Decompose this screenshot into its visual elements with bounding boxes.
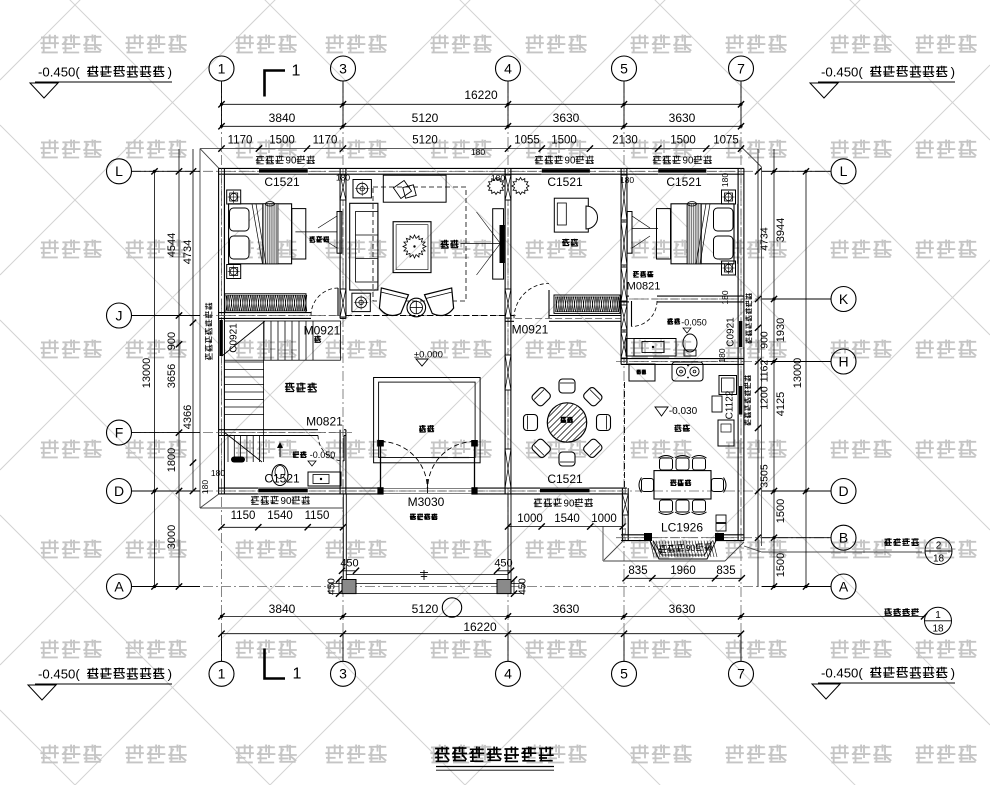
guest bath toilet	[272, 465, 288, 486]
window C1521 bottom dining	[540, 488, 590, 494]
svg-text:1000: 1000	[591, 513, 617, 525]
svg-text:835: 835	[628, 565, 647, 577]
svg-text:M3030: M3030	[408, 495, 445, 509]
breakfast-room left wall	[621, 488, 623, 540]
svg-text:13000: 13000	[792, 358, 804, 389]
window C0921 left wall	[219, 320, 225, 356]
svg-text:3840: 3840	[269, 602, 296, 616]
svg-text:450: 450	[327, 578, 338, 595]
svg-text:180: 180	[491, 173, 505, 183]
stairwell treads upper flight	[224, 321, 340, 360]
svg-text:1960: 1960	[670, 565, 696, 577]
window C1521 bottom-left (bath)	[258, 488, 307, 494]
porch side rails	[342, 494, 344, 585]
window C1521 study top	[542, 168, 590, 174]
svg-text:C1521: C1521	[264, 175, 300, 189]
axis-5 wall upper	[620, 168, 622, 302]
study closet	[554, 295, 620, 313]
svg-text:1800: 1800	[166, 448, 178, 472]
svg-text:180: 180	[336, 173, 350, 183]
porch steps	[347, 574, 508, 576]
sofa	[350, 203, 378, 290]
bath2 sink counter	[634, 339, 676, 357]
svg-text:4: 4	[504, 666, 512, 682]
svg-text:180: 180	[620, 175, 634, 185]
two chairs + round table	[375, 288, 408, 319]
svg-text:D: D	[838, 483, 848, 499]
window C1521 master top	[658, 168, 706, 174]
svg-text:C1521: C1521	[547, 472, 583, 486]
svg-text:4734: 4734	[182, 240, 194, 264]
dimension ticks	[218, 101, 224, 107]
J wall bedroom bottom	[219, 312, 311, 314]
svg-text:1: 1	[935, 610, 941, 621]
svg-text:-0.450(: -0.450(	[821, 666, 863, 681]
door M0921 study (swing up)	[548, 290, 550, 318]
bay window LC1926	[650, 541, 716, 559]
top wall (L axis)	[219, 167, 259, 169]
svg-text:1: 1	[218, 666, 226, 682]
svg-text:C1521: C1521	[264, 472, 300, 486]
svg-text:C0921: C0921	[229, 323, 240, 353]
porch columns	[342, 580, 356, 594]
left wall	[218, 168, 220, 320]
svg-text:A: A	[114, 578, 124, 594]
bath2 toilet	[683, 334, 697, 352]
svg-text:90: 90	[281, 496, 292, 507]
svg-text:1500: 1500	[551, 135, 577, 147]
svg-text:2: 2	[936, 541, 942, 552]
svg-text:4125: 4125	[775, 392, 787, 416]
svg-text:M0821: M0821	[627, 280, 661, 292]
master bed	[671, 204, 734, 264]
svg-text:4: 4	[504, 60, 512, 76]
svg-text:4544: 4544	[166, 233, 178, 257]
roof overhang / apron outline	[200, 149, 922, 561]
svg-text:180: 180	[720, 290, 730, 304]
svg-text:3630: 3630	[669, 111, 696, 125]
svg-text:18: 18	[933, 554, 945, 565]
svg-text:-0.450(: -0.450(	[38, 667, 80, 682]
bedroom1 bed	[229, 204, 292, 264]
svg-text:900: 900	[166, 332, 178, 350]
svg-text:-0.450(: -0.450(	[38, 65, 80, 80]
svg-text:3: 3	[339, 666, 347, 682]
kitchen top cabinets	[629, 364, 655, 381]
svg-text:18: 18	[932, 624, 944, 635]
svg-text:180: 180	[471, 147, 485, 157]
svg-text:16220: 16220	[463, 620, 497, 634]
svg-text:3630: 3630	[553, 111, 580, 125]
bath2 left wall (axis5 continue)	[620, 296, 622, 364]
svg-text:1: 1	[218, 60, 226, 76]
bath2 washer	[626, 339, 634, 357]
svg-text:90: 90	[565, 156, 576, 167]
svg-text:1540: 1540	[267, 510, 293, 522]
study label	[562, 239, 578, 246]
bedroom1 foot bench	[292, 209, 306, 259]
master foot bench	[657, 209, 671, 259]
svg-text:L: L	[115, 163, 123, 179]
dining chairs ring	[559, 379, 575, 393]
svg-text:): )	[951, 65, 955, 80]
axis bubbles	[209, 56, 234, 81]
svg-text:3840: 3840	[269, 111, 296, 125]
kitchen labels	[655, 407, 668, 416]
svg-text:1150: 1150	[305, 510, 330, 522]
F wall (guest bath top)	[219, 429, 318, 431]
svg-text:-0.030: -0.030	[669, 406, 698, 417]
svg-text:C1122: C1122	[725, 390, 736, 419]
stair up arrow	[279, 444, 281, 457]
bedroom1 TV	[337, 212, 342, 254]
living label + pointer	[441, 240, 459, 248]
svg-text:180: 180	[717, 348, 727, 362]
stair lower steps into bath	[228, 436, 260, 462]
svg-text:C1521: C1521	[547, 175, 583, 189]
window C0921 right wall bath	[738, 321, 744, 347]
svg-text:3944: 3944	[775, 218, 787, 242]
door M0921 bedroom1 (swing up-left)	[337, 288, 339, 316]
open boundary living/foyer	[346, 315, 505, 317]
D wall (bottom)	[219, 487, 259, 489]
svg-text:): )	[951, 666, 955, 681]
svg-text:5120: 5120	[412, 602, 439, 616]
master nightstands	[722, 190, 736, 204]
label elder room + door label	[633, 271, 654, 277]
foyer label	[419, 425, 434, 432]
entrance double door M3030	[380, 442, 382, 495]
speaker top-left	[353, 180, 371, 198]
window annotation texts	[256, 156, 284, 164]
svg-text:3505: 3505	[759, 464, 771, 488]
svg-text:1170: 1170	[228, 135, 253, 147]
svg-text:835: 835	[716, 565, 735, 577]
svg-text:5: 5	[620, 666, 628, 682]
svg-text:1055: 1055	[514, 135, 540, 147]
coffee table with plant	[393, 222, 431, 273]
svg-text:M0921: M0921	[304, 324, 341, 338]
fireplace cabinet top	[383, 175, 446, 202]
window C1122 right wall kitchen	[738, 386, 744, 415]
svg-text:1: 1	[293, 666, 302, 683]
J wall dining top	[505, 315, 514, 317]
svg-text:16220: 16220	[464, 88, 498, 102]
svg-text:C0921: C0921	[726, 317, 737, 347]
svg-text:180: 180	[211, 468, 225, 478]
svg-text:): )	[168, 65, 172, 80]
svg-text:1162: 1162	[759, 360, 771, 383]
svg-text:K: K	[839, 291, 849, 307]
living room dashed rug rect	[373, 187, 466, 301]
section marker top	[265, 71, 286, 679]
svg-text:90: 90	[564, 498, 575, 509]
svg-text:2130: 2130	[612, 135, 638, 147]
guest bath sink	[308, 472, 341, 486]
stair labels	[285, 383, 317, 392]
svg-text:900: 900	[759, 331, 771, 349]
dining table	[547, 403, 586, 442]
H wall	[621, 358, 744, 360]
axis-3 wall lower (bath right)	[339, 430, 341, 494]
svg-text:LC1926: LC1926	[661, 521, 703, 535]
foyer level mark	[416, 359, 428, 366]
svg-text:1170: 1170	[313, 135, 338, 147]
bedroom1 closet	[225, 294, 306, 312]
stair break diagonal	[222, 321, 265, 356]
bedroom1 nightstand top	[227, 190, 241, 204]
svg-text:H: H	[838, 353, 848, 369]
B wall with bay opening	[621, 534, 650, 536]
dimension lines top	[155, 104, 925, 633]
window C1521 bedroom1 top	[259, 168, 308, 174]
open boundary dining/kitchen	[624, 382, 626, 488]
svg-text:1930: 1930	[775, 318, 787, 342]
breakfast table	[654, 471, 711, 499]
svg-text:C1521: C1521	[666, 175, 702, 189]
black piers at bay ends	[644, 533, 652, 541]
guest bath labels	[293, 451, 307, 457]
svg-text:-0.450(: -0.450(	[821, 65, 863, 80]
svg-text:5120: 5120	[412, 111, 439, 125]
kitchen right counter: sink + cabinet	[719, 376, 737, 395]
plants at axis4 top	[488, 178, 505, 195]
main title	[435, 747, 554, 762]
svg-text:3656: 3656	[166, 364, 178, 388]
svg-text:180: 180	[720, 173, 730, 187]
svg-text:1200: 1200	[759, 386, 771, 410]
axis-3 wall upper	[339, 168, 341, 318]
svg-text:1150: 1150	[231, 510, 256, 522]
svg-text:4734: 4734	[759, 227, 771, 251]
axis grid dashed lines	[131, 83, 831, 661]
svg-text:180: 180	[200, 480, 210, 494]
small boxes above right pier	[716, 515, 726, 523]
wall column hatches	[340, 175, 346, 200]
svg-text:±0.000: ±0.000	[414, 349, 443, 360]
label bedroom1	[309, 236, 329, 242]
svg-text:B: B	[839, 530, 848, 546]
svg-text:1: 1	[292, 63, 301, 80]
svg-text:M0821: M0821	[306, 415, 343, 429]
study desk	[554, 198, 588, 232]
foyer double square	[374, 378, 481, 463]
master TV	[627, 212, 632, 254]
svg-text:J: J	[116, 307, 123, 323]
svg-text:): )	[168, 667, 172, 682]
svg-text:L: L	[840, 163, 848, 179]
right wall	[737, 168, 739, 321]
svg-text:4366: 4366	[182, 405, 194, 429]
watermark texts	[40, 35, 101, 53]
porch up mark	[423, 570, 425, 580]
svg-text:-0.050: -0.050	[681, 318, 707, 328]
bath2 labels	[667, 318, 680, 324]
svg-text:3000: 3000	[166, 525, 178, 549]
svg-text:90: 90	[685, 543, 695, 554]
svg-text:1000: 1000	[517, 513, 543, 525]
sanshui callout	[884, 538, 919, 545]
K wall	[621, 295, 629, 297]
svg-text:7: 7	[737, 666, 745, 682]
stair left flight	[224, 321, 263, 462]
svg-text:7: 7	[737, 60, 745, 76]
svg-text:1500: 1500	[670, 135, 696, 147]
svg-text:1500: 1500	[269, 135, 295, 147]
svg-text:-0.050: -0.050	[310, 450, 336, 460]
svg-text:90: 90	[683, 156, 694, 167]
guest bath floor drain	[231, 457, 245, 463]
entrance steps callout	[884, 608, 919, 616]
svg-text:1500: 1500	[775, 499, 787, 523]
svg-text:13000: 13000	[141, 358, 153, 389]
svg-text:D: D	[114, 483, 124, 499]
svg-text:3630: 3630	[553, 602, 580, 616]
svg-text:A: A	[839, 578, 849, 594]
svg-text:F: F	[115, 425, 124, 441]
door M0821 guest bath (swing down-left)	[343, 436, 345, 462]
svg-text:5120: 5120	[412, 135, 438, 147]
svg-text:1540: 1540	[554, 513, 580, 525]
svg-text:1075: 1075	[713, 135, 739, 147]
svg-text:M0921: M0921	[512, 323, 549, 337]
svg-text:3630: 3630	[669, 602, 696, 616]
svg-text:450: 450	[518, 578, 529, 595]
svg-text:90: 90	[286, 156, 297, 167]
axis-4 wall	[504, 168, 506, 494]
TV cabinet living	[493, 209, 504, 279]
svg-text:5: 5	[620, 60, 628, 76]
door M0821 bath2 (swing down-right)	[631, 301, 633, 327]
svg-text:3: 3	[339, 60, 347, 76]
svg-text:450: 450	[494, 557, 512, 569]
revision circle near 5120	[442, 598, 461, 617]
svg-text:1500: 1500	[775, 553, 787, 577]
